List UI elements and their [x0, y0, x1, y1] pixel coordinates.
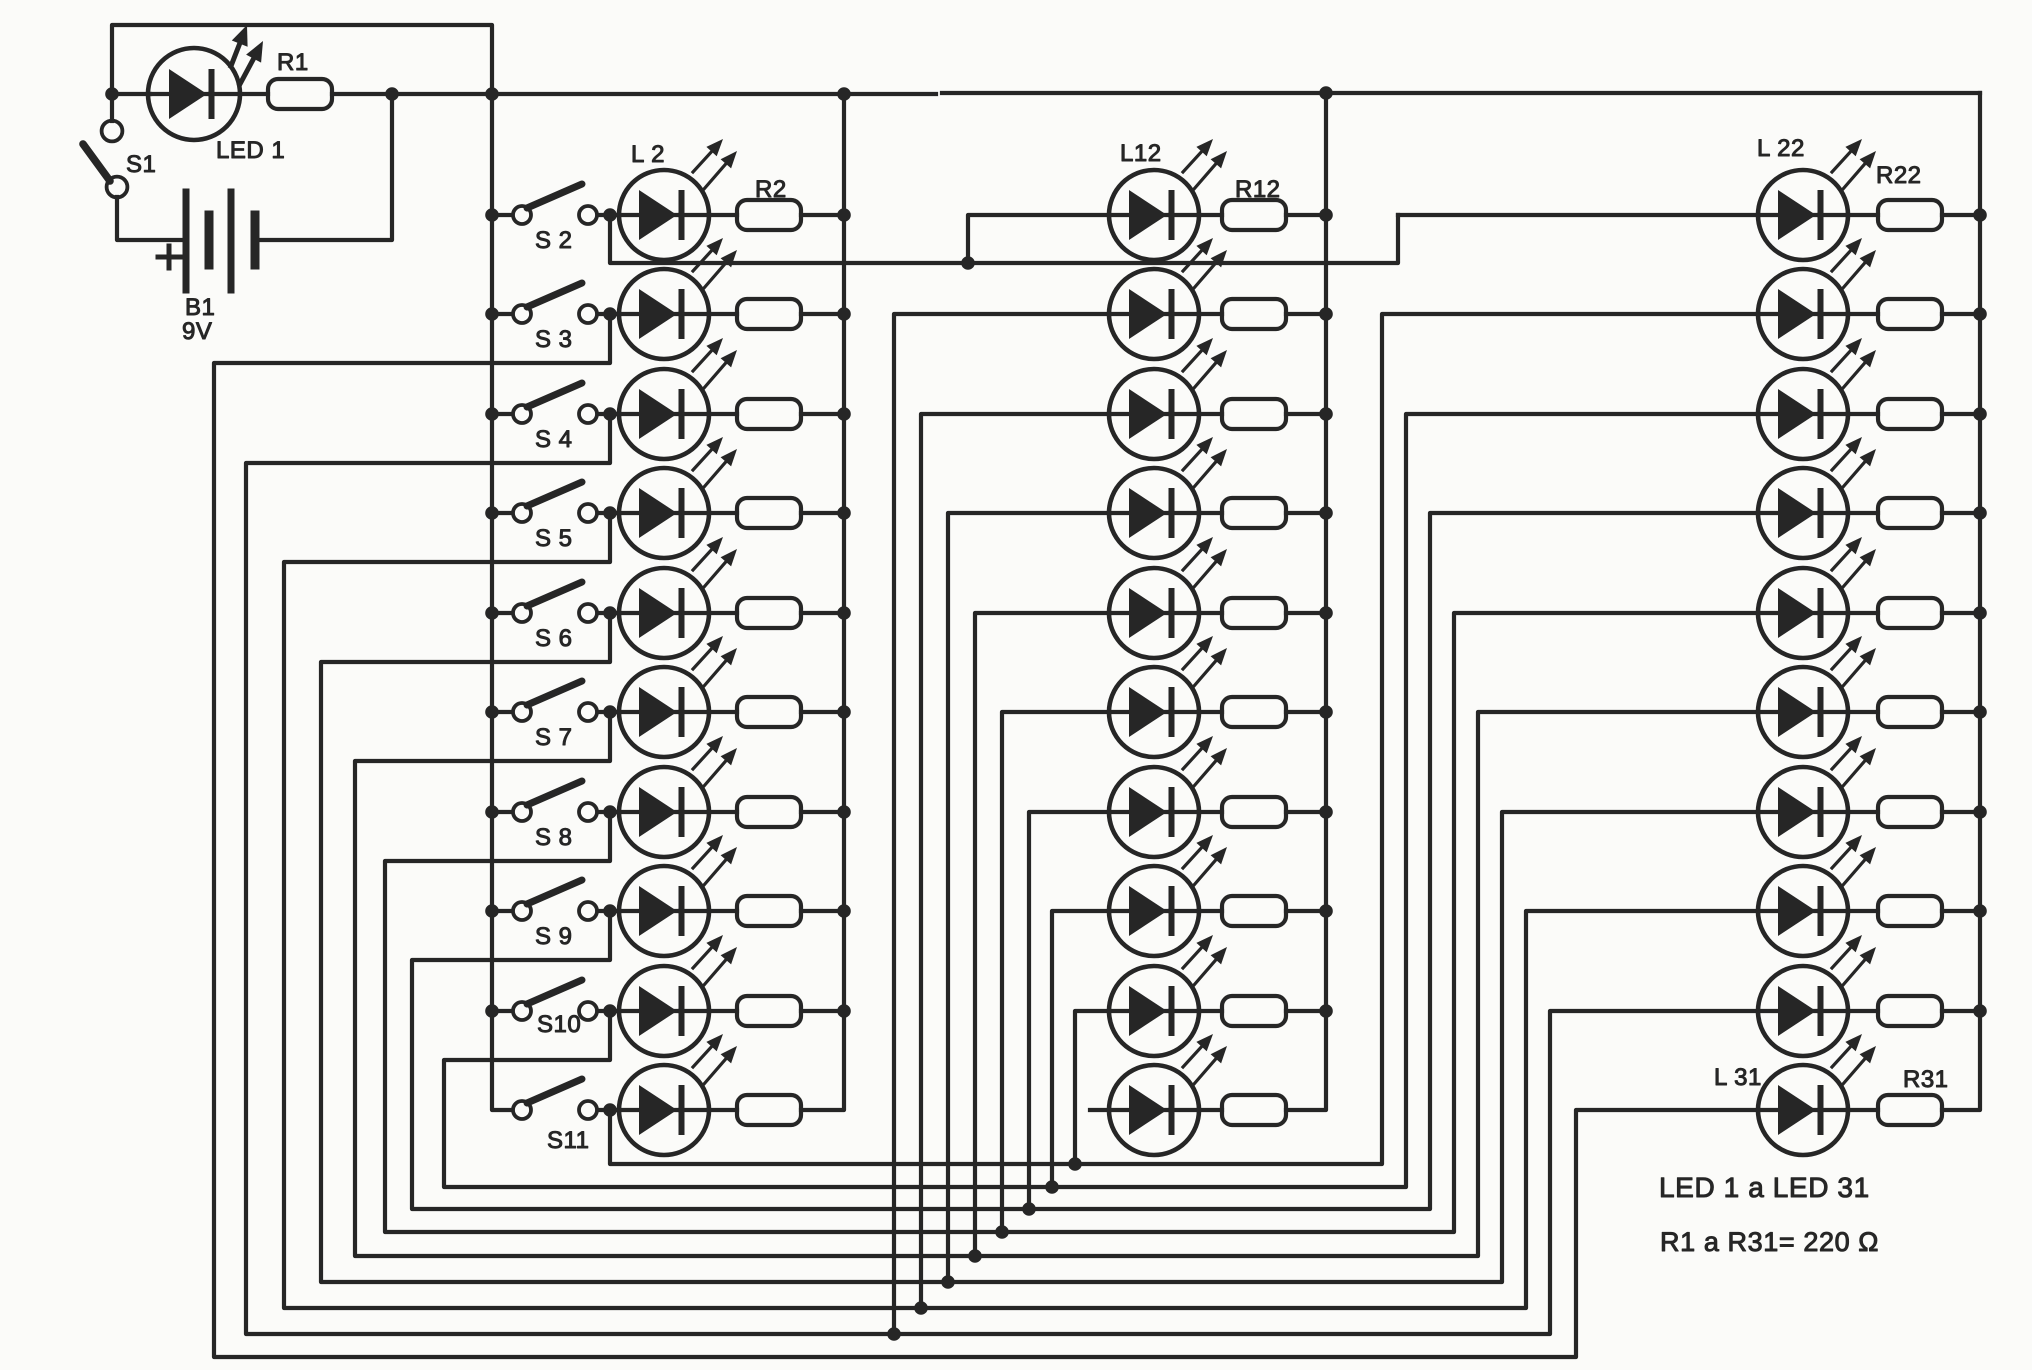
wire R4 to right bus: [801, 412, 844, 416]
svg-text:S11: S11: [547, 1127, 589, 1154]
wire L6 to R6: [709, 611, 737, 615]
wire R7 to right bus: [801, 710, 844, 714]
wire L4 to R4: [709, 412, 737, 416]
led LED1: [148, 25, 263, 140]
wire feed L13 riser: [894, 314, 1109, 1334]
led L19: [1109, 835, 1227, 956]
wire R6 to right bus: [801, 611, 844, 615]
wire R12 to right bus: [1286, 213, 1326, 217]
svg-text:S 5: S 5: [535, 525, 573, 552]
resistor R27: [1878, 697, 1942, 727]
wire S7 to L7: [598, 710, 619, 714]
svg-text:R1 a R31= 220 Ω: R1 a R31= 220 Ω: [1660, 1227, 1879, 1257]
wire top bypass from node A to switch-bus top: [112, 25, 492, 94]
switch S2: [513, 184, 597, 224]
wire S8 to L8: [598, 810, 619, 814]
wire S1 to battery +: [117, 197, 184, 240]
wire feed L14 riser: [921, 414, 1109, 1308]
wire S11 to L11: [598, 1108, 619, 1112]
svg-text:S1: S1: [126, 151, 156, 178]
wire R29 to right bus: [1942, 909, 1980, 913]
wire L7 to R7: [709, 710, 737, 714]
wire L18 to R18: [1199, 810, 1222, 814]
svg-text:B1: B1: [185, 294, 215, 321]
wire feed L19 riser: [1052, 911, 1109, 1187]
svg-text:S 2: S 2: [535, 227, 573, 254]
node feed L15 tap: [941, 1275, 955, 1289]
resistor R28: [1878, 797, 1942, 827]
resistor R26: [1878, 598, 1942, 628]
wire L3 to R3: [709, 312, 737, 316]
nodes col3 right bus taps: [1973, 208, 1987, 1018]
node S7 output: [603, 705, 617, 719]
wire net S3 via bottom channel to col3: [214, 314, 1758, 1357]
wire S4 to L4: [598, 412, 619, 416]
svg-text:S 8: S 8: [535, 824, 573, 851]
wire S5 to L5: [598, 511, 619, 515]
node feed L17 tap: [995, 1225, 1009, 1239]
wire feed L20 riser: [1075, 1011, 1109, 1164]
switch S3: [513, 283, 597, 323]
wire battery - to node B: [257, 94, 392, 240]
wire L20 to R20: [1199, 1009, 1222, 1013]
wire L29 to R29: [1848, 909, 1878, 913]
wire L28 to R28: [1848, 810, 1878, 814]
wire R23 to right bus: [1942, 312, 1980, 316]
svg-text:R1: R1: [277, 49, 309, 76]
wire S9 to L9: [598, 909, 619, 913]
svg-text:LED 1: LED 1: [216, 137, 285, 164]
wire net S8 via bottom channel to col3: [385, 613, 1758, 1232]
switch S8: [513, 781, 597, 821]
svg-text:R12: R12: [1235, 176, 1281, 203]
wire L10 to R10: [709, 1009, 737, 1013]
wire R2 to right bus: [801, 213, 844, 217]
node S4 output: [603, 407, 617, 421]
resistor R31: [1878, 1095, 1942, 1125]
label B1 9V: [182, 294, 215, 345]
wire negative rail (top): [392, 92, 936, 96]
svg-text:S 9: S 9: [535, 923, 573, 950]
svg-text:LED 1 a LED 31: LED 1 a LED 31: [1659, 1172, 1870, 1203]
wire col1 right bus: [801, 94, 844, 1110]
wire R27 to right bus: [1942, 710, 1980, 714]
wire L17 to R17: [1199, 710, 1222, 714]
resistor R18: [1222, 797, 1286, 827]
wire R18 to right bus: [1286, 810, 1326, 814]
svg-text:S 4: S 4: [535, 426, 573, 453]
node rail / col2 right bus: [1319, 86, 1333, 100]
wire R30 to right bus: [1942, 1009, 1980, 1013]
node net S2 / L12 branch: [961, 256, 975, 270]
wire net S4 via bottom channel to col3: [246, 414, 1758, 1334]
resistor R1: [268, 79, 332, 109]
wire col3 right bus: [1942, 93, 1980, 1110]
led L9: [619, 835, 737, 956]
node B junction R1/battery-: [385, 87, 399, 101]
wire net S10 via bottom channel to col3: [444, 414, 1758, 1187]
svg-text:R22: R22: [1876, 162, 1922, 189]
svg-text:L 22: L 22: [1757, 135, 1805, 162]
led L12: [1109, 139, 1227, 260]
led L17: [1109, 636, 1227, 757]
wire S3 to L3: [598, 312, 619, 316]
led L20: [1109, 935, 1227, 1056]
wire R13 to right bus: [1286, 312, 1326, 316]
resistor R23: [1878, 299, 1942, 329]
node S5 output: [603, 506, 617, 520]
led L13: [1109, 238, 1227, 359]
node rail / switch-bus: [485, 87, 499, 101]
node S2 output: [603, 208, 617, 222]
wire L23 to R23: [1848, 312, 1878, 316]
wire L5 to R5: [709, 511, 737, 515]
wire node A to S1: [110, 94, 114, 121]
resistor R24: [1878, 399, 1942, 429]
led L28: [1758, 736, 1876, 857]
resistor R7: [737, 697, 801, 727]
led L8: [619, 736, 737, 857]
switch S11: [513, 1079, 597, 1119]
wire L13 to R13: [1199, 312, 1222, 316]
wire L26 to R26: [1848, 611, 1878, 615]
wire L22 to R22: [1848, 213, 1878, 217]
wire R3 to right bus: [801, 312, 844, 316]
node S8 output: [603, 805, 617, 819]
nodes col1 right bus taps: [837, 208, 851, 1018]
led L31: [1758, 1034, 1876, 1155]
wire R14 to right bus: [1286, 412, 1326, 416]
wire L11 to R11: [709, 1108, 737, 1112]
led L18: [1109, 736, 1227, 857]
wire net S7 via bottom channel to col3: [355, 712, 1758, 1256]
led L3: [619, 238, 737, 359]
node S11 output: [603, 1103, 617, 1117]
led L26: [1758, 537, 1876, 658]
wire feed L17 riser: [1002, 712, 1109, 1232]
svg-text:S 7: S 7: [535, 724, 573, 751]
wire net S6 via bottom channel to col3: [321, 613, 1758, 1282]
wire S6 to L6: [598, 611, 619, 615]
svg-text:R31: R31: [1903, 1066, 1949, 1093]
switch S7: [513, 681, 597, 721]
led L27: [1758, 636, 1876, 757]
svg-text:S 3: S 3: [535, 326, 573, 353]
wire L25 to R25: [1848, 511, 1878, 515]
led L14: [1109, 338, 1227, 459]
svg-text:S 6: S 6: [535, 625, 573, 652]
led L22: [1758, 139, 1876, 260]
node feed L19 tap: [1045, 1180, 1059, 1194]
resistor R8: [737, 797, 801, 827]
wire col2 right bus: [1286, 93, 1326, 1110]
led L10: [619, 935, 737, 1056]
wire R9 to right bus: [801, 909, 844, 913]
wire R20 to right bus: [1286, 1009, 1326, 1013]
resistor R2: [737, 200, 801, 230]
wire S2 to L2: [598, 213, 619, 217]
led L2: [619, 139, 737, 260]
node feed L14 tap: [914, 1301, 928, 1315]
wire feed L16 riser: [975, 613, 1109, 1256]
svg-text:S10: S10: [537, 1011, 581, 1038]
wire R22 to right bus: [1942, 213, 1980, 217]
resistor R5: [737, 498, 801, 528]
node A junction battery+/S1/LED1 anode: [105, 87, 119, 101]
switch S10: [513, 980, 597, 1020]
wire L9 to R9: [709, 909, 737, 913]
resistor R3: [737, 299, 801, 329]
led L21: [1109, 1034, 1227, 1155]
wire L16 to R16: [1199, 611, 1222, 615]
switch S1: [83, 121, 127, 198]
resistor R12: [1222, 200, 1286, 230]
wire L21 input stub: [1090, 1108, 1109, 1112]
resistor R17: [1222, 697, 1286, 727]
led L29: [1758, 835, 1876, 956]
wire col1 bus stubs to switches: [492, 215, 512, 1011]
wire LED1 anode stub: [112, 92, 150, 96]
resistor R4: [737, 399, 801, 429]
led L30: [1758, 935, 1876, 1056]
node feed L20 tap: [1068, 1157, 1082, 1171]
led L5: [619, 437, 737, 558]
resistor R14: [1222, 399, 1286, 429]
wire L31 to R31: [1848, 1108, 1878, 1112]
resistor R10: [737, 996, 801, 1026]
wire net S2 to L12/L22: [610, 215, 1398, 263]
led L23: [1758, 238, 1876, 359]
battery B1: [158, 192, 255, 290]
resistor R22: [1878, 200, 1942, 230]
wire R15 to right bus: [1286, 511, 1326, 515]
svg-text:L 2: L 2: [631, 141, 665, 168]
wire L12 to R12: [1199, 213, 1222, 217]
wire R19 to right bus: [1286, 909, 1326, 913]
resistor R9: [737, 896, 801, 926]
resistor R16: [1222, 598, 1286, 628]
wire L27 to R27: [1848, 710, 1878, 714]
led L4: [619, 338, 737, 459]
wire feed L18 riser: [1029, 812, 1109, 1209]
wire LED1 to R1: [240, 92, 268, 96]
led L7: [619, 636, 737, 757]
wire net S11 via bottom channel to col3: [610, 314, 1758, 1164]
node feed L16 tap: [968, 1249, 982, 1263]
resistor R19: [1222, 896, 1286, 926]
wire L19 to R19: [1199, 909, 1222, 913]
node S6 output: [603, 606, 617, 620]
nodes col2 right bus taps: [1319, 208, 1333, 1018]
svg-text:9V: 9V: [182, 318, 212, 345]
led L15: [1109, 437, 1227, 558]
wire R26 to right bus: [1942, 611, 1980, 615]
wire net S5 via bottom channel to col3: [284, 513, 1758, 1308]
wire col1 switch bus: [492, 94, 512, 1110]
svg-text:R2: R2: [755, 176, 787, 203]
node feed L18 tap: [1022, 1202, 1036, 1216]
switch S4: [513, 383, 597, 423]
wire S10 to L10: [598, 1009, 619, 1013]
wire R10 to right bus: [801, 1009, 844, 1013]
wire R8 to right bus: [801, 810, 844, 814]
resistor R21: [1222, 1095, 1286, 1125]
wire R16 to right bus: [1286, 611, 1326, 615]
node S3 output: [603, 307, 617, 321]
led L11: [619, 1034, 737, 1155]
wire L30 to R30: [1848, 1009, 1878, 1013]
resistor R6: [737, 598, 801, 628]
switch S5: [513, 482, 597, 522]
node S9 output: [603, 904, 617, 918]
wire L12 feed branch: [968, 215, 1109, 263]
wire L14 to R14: [1199, 412, 1222, 416]
resistor R30: [1878, 996, 1942, 1026]
wire R5 to right bus: [801, 511, 844, 515]
resistor R11: [737, 1095, 801, 1125]
wire L21 to R21: [1199, 1108, 1222, 1112]
wire R17 to right bus: [1286, 710, 1326, 714]
node S10 output: [603, 1004, 617, 1018]
led L24: [1758, 338, 1876, 459]
resistor R29: [1878, 896, 1942, 926]
wire R25 to right bus: [1942, 511, 1980, 515]
wire L2 to R2: [709, 213, 737, 217]
wire L8 to R8: [709, 810, 737, 814]
svg-text:L12: L12: [1120, 140, 1162, 167]
node feed L13 tap: [887, 1327, 901, 1341]
node rail / col1 right bus: [837, 87, 851, 101]
led L6: [619, 537, 737, 658]
wire net S9 via bottom channel to col3: [412, 513, 1758, 1209]
wire L15 to R15: [1199, 511, 1222, 515]
wire L24 to R24: [1848, 412, 1878, 416]
switch S6: [513, 582, 597, 622]
wire R24 to right bus: [1942, 412, 1980, 416]
resistor R20: [1222, 996, 1286, 1026]
svg-text:L 31: L 31: [1714, 1064, 1762, 1091]
wire R28 to right bus: [1942, 810, 1980, 814]
led L25: [1758, 437, 1876, 558]
switch S9: [513, 880, 597, 920]
nodes col1 switch bus taps: [485, 208, 499, 1018]
resistor R15: [1222, 498, 1286, 528]
led L16: [1109, 537, 1227, 658]
resistor R13: [1222, 299, 1286, 329]
resistor R25: [1878, 498, 1942, 528]
wire R1 to node B: [332, 92, 392, 96]
wire feed L15 riser: [948, 513, 1109, 1282]
